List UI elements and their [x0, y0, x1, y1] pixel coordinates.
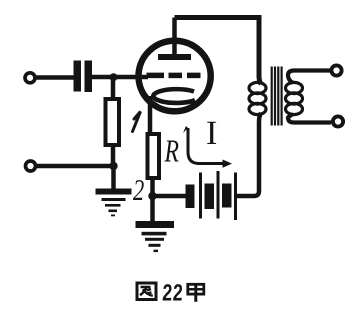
svg-text:I: I: [206, 115, 217, 152]
svg-text:R: R: [164, 133, 180, 169]
svg-text:22: 22: [162, 280, 184, 306]
svg-text:2: 2: [133, 174, 144, 207]
